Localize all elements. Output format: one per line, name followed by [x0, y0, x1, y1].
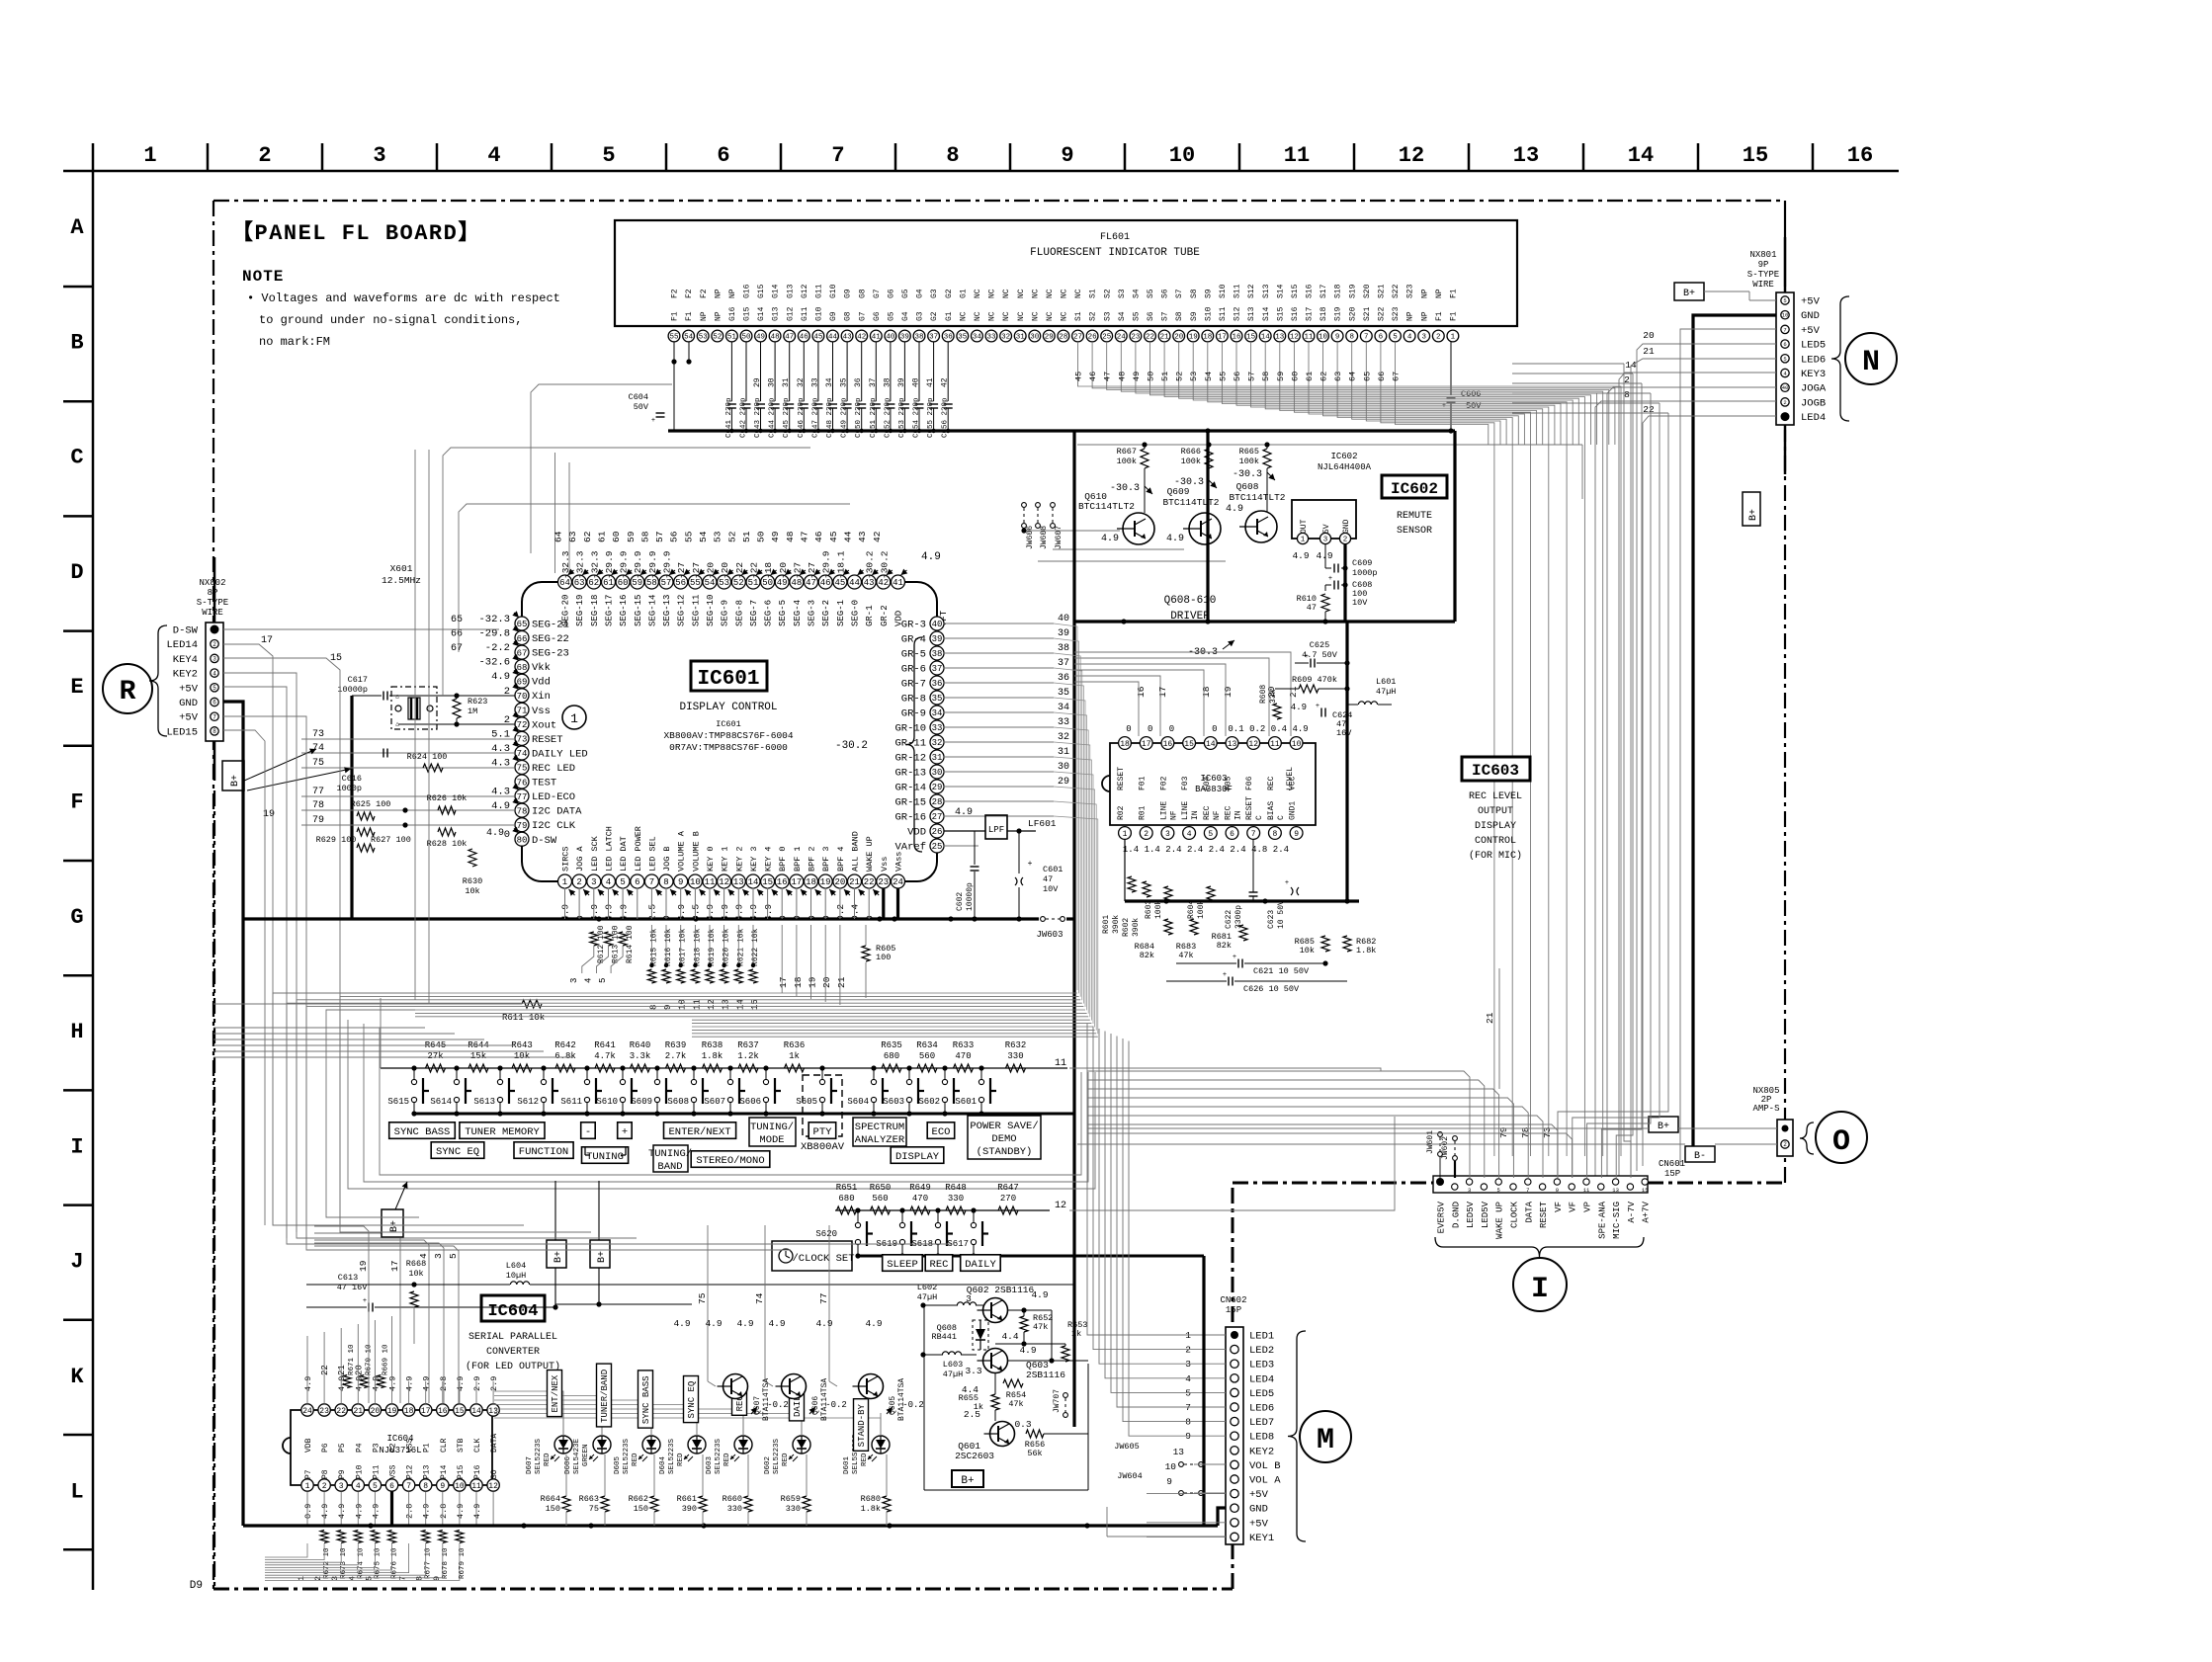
svg-text:NP: NP	[700, 311, 709, 321]
svg-text:S608: S608	[667, 1097, 689, 1107]
FL601 right pin bus (nets 45-67)	[1078, 342, 1622, 1156]
FL601 pin 33	[985, 330, 997, 342]
svg-text:GR-13: GR-13	[894, 768, 926, 780]
svg-text:43: 43	[857, 531, 868, 542]
op-chip IC601 outline	[522, 582, 937, 881]
svg-text:17: 17	[791, 877, 802, 887]
svg-text:2.4: 2.4	[1165, 845, 1181, 855]
svg-text:LED6: LED6	[1801, 354, 1826, 366]
svg-text:7: 7	[1251, 830, 1256, 839]
svg-text:P7: P7	[304, 1469, 313, 1479]
svg-text:30: 30	[768, 377, 777, 387]
B+ box rotated right side	[1743, 492, 1760, 526]
svg-text:50V: 50V	[1466, 401, 1482, 411]
M connector pin 15	[1231, 1533, 1238, 1540]
svg-text:KEY 1: KEY 1	[721, 846, 730, 872]
svg-text:SEG-8: SEG-8	[734, 600, 744, 626]
svg-text:27: 27	[932, 812, 943, 822]
LED D604	[688, 1436, 706, 1454]
IC601 left pin 78	[515, 803, 529, 817]
svg-text:SEL5423E: SEL5423E	[573, 1438, 581, 1474]
IC601 left pin 67	[515, 645, 529, 659]
IC604 bottom pin 1	[301, 1479, 313, 1491]
svg-text:58: 58	[639, 531, 650, 542]
svg-text:JW602: JW602	[1441, 1136, 1450, 1160]
M connector pin 5	[1231, 1388, 1238, 1396]
svg-text:GR-2: GR-2	[880, 605, 890, 626]
svg-text:58: 58	[1261, 372, 1271, 381]
svg-text:5: 5	[620, 877, 625, 887]
svg-text:2: 2	[322, 1482, 327, 1491]
IC601 bottom pin 5	[616, 874, 630, 888]
svg-text:C621 10 50V: C621 10 50V	[1253, 966, 1310, 976]
svg-text:75: 75	[517, 764, 528, 774]
svg-text:47: 47	[1103, 372, 1113, 381]
svg-text:S3: S3	[1103, 311, 1112, 321]
svg-text:22: 22	[1146, 334, 1154, 342]
svg-text:SEG-16: SEG-16	[619, 595, 629, 626]
svg-text:4.4: 4.4	[962, 1384, 978, 1395]
IC601 bottom pin 24	[892, 874, 905, 888]
svg-text:+5V: +5V	[179, 712, 199, 724]
svg-text:4.9: 4.9	[1101, 534, 1119, 544]
svg-text:SEG-14: SEG-14	[647, 595, 657, 626]
svg-text:5: 5	[213, 685, 216, 692]
svg-text:0.4: 0.4	[1271, 724, 1287, 734]
svg-text:GR-10: GR-10	[894, 723, 926, 735]
svg-text:B+: B+	[961, 1475, 974, 1487]
svg-text:S603: S603	[883, 1097, 904, 1107]
IC603 bottom pin 4	[1183, 827, 1196, 840]
svg-text:4.9: 4.9	[815, 1318, 832, 1329]
svg-text:WIRE: WIRE	[202, 608, 223, 618]
svg-text:S7: S7	[1175, 289, 1184, 298]
IC604 bottom pin 11	[470, 1479, 482, 1491]
svg-text:43: 43	[843, 334, 853, 342]
svg-text:L602: L602	[917, 1283, 937, 1292]
svg-text:75: 75	[589, 1504, 599, 1514]
R connector pin 4	[211, 669, 218, 677]
svg-text:G16: G16	[728, 306, 737, 321]
svg-text:RED: RED	[632, 1453, 639, 1466]
svg-text:S615: S615	[387, 1097, 409, 1107]
svg-text:2.5: 2.5	[964, 1409, 980, 1420]
svg-text:SEG-23: SEG-23	[532, 648, 569, 660]
svg-text:1k: 1k	[789, 1051, 800, 1061]
svg-text:2.8: 2.8	[405, 1504, 415, 1519]
svg-text:CONTROL: CONTROL	[1475, 836, 1516, 847]
svg-text:3: 3	[213, 656, 216, 663]
IC601 left pin 70	[515, 689, 529, 703]
svg-text:1: 1	[305, 1482, 310, 1491]
svg-text:S610: S610	[596, 1097, 618, 1107]
svg-text:LED2: LED2	[1249, 1345, 1274, 1357]
svg-text:2.8: 2.8	[439, 1504, 449, 1519]
svg-text:7: 7	[1783, 326, 1786, 333]
svg-text:8P: 8P	[208, 588, 218, 598]
IC601 bottom pin 11	[703, 874, 717, 888]
clock set box	[772, 1241, 852, 1271]
svg-text:36: 36	[854, 377, 863, 387]
FL601 pin 48	[769, 330, 781, 342]
svg-text:8: 8	[1272, 830, 1277, 839]
svg-text:10: 10	[1782, 312, 1789, 319]
svg-text:15: 15	[1642, 1187, 1649, 1194]
IC601 right pin 40	[930, 617, 944, 630]
svg-text:16: 16	[438, 1407, 448, 1416]
svg-text:2.7k: 2.7k	[665, 1051, 687, 1061]
svg-text:50: 50	[1147, 372, 1156, 381]
svg-text:R609 470k: R609 470k	[1292, 675, 1337, 685]
svg-text:2.4: 2.4	[1187, 845, 1203, 855]
svg-text:REC LED: REC LED	[532, 763, 575, 775]
IC601 top pin 53	[718, 575, 731, 589]
svg-text:R651: R651	[836, 1183, 858, 1193]
IC601 bottom pin 13	[731, 874, 745, 888]
IC604 bottom pin 5	[369, 1479, 381, 1491]
svg-text:KEY4: KEY4	[173, 654, 198, 666]
svg-text:JW604: JW604	[1117, 1471, 1143, 1481]
svg-text:-30.2: -30.2	[865, 550, 876, 579]
svg-text:19: 19	[820, 877, 831, 887]
svg-text:R620 10k: R620 10k	[723, 928, 731, 966]
svg-text:26: 26	[1088, 334, 1098, 342]
horizontal connections at top right	[1512, 363, 1624, 365]
svg-text:2: 2	[1783, 1141, 1787, 1148]
svg-text:1.8k: 1.8k	[702, 1051, 723, 1061]
svg-text:JW607: JW607	[1055, 526, 1063, 549]
svg-text:BPF 2: BPF 2	[808, 846, 817, 872]
svg-text:-: -	[585, 1126, 591, 1138]
svg-text:-27: -27	[676, 562, 687, 579]
switch S604	[873, 1068, 875, 1079]
svg-text:10: 10	[1169, 143, 1195, 168]
svg-text:R638: R638	[702, 1040, 723, 1050]
IC601 right pin 33	[930, 720, 944, 734]
svg-text:16: 16	[1163, 740, 1173, 749]
svg-text:AMP-S: AMP-S	[1752, 1104, 1779, 1114]
svg-text:14: 14	[748, 877, 759, 887]
M connector pin 1	[1231, 1331, 1238, 1339]
svg-text:+: +	[1305, 653, 1309, 661]
IC604 bottom pin 3	[335, 1479, 347, 1491]
IC604 top pin 22	[335, 1404, 347, 1416]
svg-text:NC: NC	[959, 311, 968, 321]
svg-text:POWER SAVE/: POWER SAVE/	[970, 1121, 1038, 1132]
svg-text:R648: R648	[945, 1183, 967, 1193]
svg-text:36: 36	[1058, 673, 1069, 684]
svg-text:-2.2: -2.2	[485, 642, 510, 654]
svg-text:STAND-BY: STAND-BY	[857, 1403, 867, 1447]
svg-text:FUNCTION: FUNCTION	[519, 1146, 568, 1158]
FL601 pin 30	[1029, 330, 1041, 342]
svg-text:13: 13	[1173, 1447, 1185, 1457]
svg-text:LED DAT: LED DAT	[619, 836, 629, 872]
svg-text:44: 44	[828, 334, 838, 342]
svg-text:P5: P5	[338, 1443, 347, 1453]
svg-text:+5V: +5V	[179, 683, 199, 695]
svg-text:76: 76	[517, 778, 528, 788]
svg-text:SEG-5: SEG-5	[778, 600, 788, 626]
svg-text:13: 13	[1513, 143, 1539, 168]
svg-text:18: 18	[806, 877, 816, 887]
svg-text:SPE-ANA: SPE-ANA	[1597, 1201, 1607, 1238]
svg-text:ECO: ECO	[932, 1126, 951, 1138]
switch S619	[901, 1210, 903, 1222]
svg-text:2: 2	[258, 143, 271, 168]
FL601 pin 55	[668, 330, 680, 342]
svg-text:DISPLAY: DISPLAY	[1475, 821, 1516, 832]
R655	[991, 1394, 999, 1410]
IC601 bottom pin 4	[602, 874, 616, 888]
N connector pin 7	[1781, 383, 1789, 391]
FL601 pin 25	[1101, 330, 1113, 342]
IC601 bottom pin 15	[761, 874, 775, 888]
svg-text:CONVERTER: CONVERTER	[486, 1347, 540, 1358]
I connector pin 4	[1481, 1184, 1487, 1190]
switch S618	[937, 1210, 939, 1222]
svg-text:30: 30	[1030, 334, 1040, 342]
FL601 pin 53	[697, 330, 709, 342]
svg-text:GND: GND	[1801, 310, 1820, 322]
svg-text:10: 10	[1165, 1461, 1177, 1472]
svg-text:-29.9: -29.9	[633, 550, 643, 579]
svg-text:G2: G2	[930, 311, 939, 321]
svg-text:TUNER/BAND: TUNER/BAND	[600, 1370, 610, 1423]
svg-text:6: 6	[213, 700, 216, 706]
svg-text:S21: S21	[1378, 284, 1387, 298]
svg-text:470: 470	[955, 1051, 971, 1061]
svg-text:DEMO: DEMO	[991, 1133, 1016, 1145]
svg-text:MIC-SIG: MIC-SIG	[1612, 1202, 1622, 1239]
svg-text:P16: P16	[473, 1464, 482, 1479]
svg-text:SENSOR: SENSOR	[1397, 526, 1432, 537]
svg-text:57: 57	[1247, 372, 1257, 381]
svg-text:18: 18	[404, 1407, 414, 1416]
IC601 top pin 42	[877, 575, 891, 589]
svg-text:9: 9	[1185, 1431, 1191, 1442]
svg-text:33: 33	[810, 377, 819, 387]
svg-text:S614: S614	[430, 1097, 452, 1107]
svg-text:RED: RED	[723, 1453, 731, 1466]
svg-text:F2: F2	[685, 289, 694, 298]
svg-text:C616: C616	[342, 774, 362, 784]
IC601 top pin 62	[587, 575, 601, 589]
IC603 top pin 18	[1119, 737, 1132, 750]
svg-text:5: 5	[373, 1482, 378, 1491]
IC601 left pin 71	[515, 703, 529, 716]
svg-text:R659: R659	[781, 1494, 801, 1504]
svg-text:5V: 5V	[1322, 524, 1331, 534]
svg-text:9: 9	[1335, 334, 1340, 342]
svg-text:-27: -27	[792, 562, 803, 579]
LED D605	[642, 1436, 660, 1454]
thick key bus row1	[414, 1113, 1074, 1116]
R connector pin 3	[211, 654, 218, 662]
svg-text:RESET: RESET	[1245, 796, 1254, 820]
FL601 pin 34	[972, 330, 983, 342]
svg-text:14: 14	[471, 1407, 481, 1416]
svg-text:3: 3	[1165, 830, 1170, 839]
svg-text:S17: S17	[1319, 284, 1328, 298]
N connector pin 4	[1781, 340, 1789, 348]
svg-text:SEL5223S: SEL5223S	[535, 1438, 543, 1474]
svg-text:G1: G1	[945, 311, 954, 321]
svg-text:S19: S19	[1334, 306, 1343, 321]
switch S610	[622, 1068, 624, 1079]
svg-text:13: 13	[722, 999, 731, 1010]
svg-text:JW603: JW603	[1036, 930, 1063, 940]
N circle	[1845, 333, 1897, 384]
svg-text:BPF 3: BPF 3	[821, 846, 831, 872]
svg-text:6.8k: 6.8k	[554, 1051, 576, 1061]
svg-text:21: 21	[1643, 346, 1655, 357]
svg-text:G9: G9	[844, 289, 853, 298]
IC603 top pin 13	[1226, 737, 1238, 750]
svg-text:R641: R641	[594, 1040, 616, 1050]
IC604 bottom pin 2	[318, 1479, 330, 1491]
svg-text:10000p: 10000p	[337, 685, 368, 695]
svg-text:GR-14: GR-14	[894, 783, 926, 794]
svg-text:G1: G1	[959, 289, 968, 298]
svg-text:56: 56	[669, 531, 680, 542]
svg-text:11: 11	[1270, 740, 1280, 749]
svg-text:S10: S10	[1219, 284, 1228, 298]
svg-text:S16: S16	[1306, 284, 1315, 298]
IC601 bottom pin 1	[558, 874, 572, 888]
svg-text:C601: C601	[1043, 865, 1063, 874]
svg-text:S605: S605	[796, 1097, 817, 1107]
FL601 pin 27	[1072, 330, 1084, 342]
svg-text:+: +	[1316, 703, 1319, 710]
svg-text:G11: G11	[815, 284, 824, 298]
FL601 pin 41	[870, 330, 882, 342]
svg-text:R666: R666	[1181, 447, 1201, 457]
svg-text:41: 41	[926, 377, 935, 387]
svg-text:Q608: Q608	[1236, 481, 1259, 492]
svg-text:16: 16	[1136, 686, 1147, 698]
svg-text:39: 39	[1058, 628, 1069, 639]
svg-text:G5: G5	[901, 289, 910, 298]
svg-text:37: 37	[1058, 658, 1069, 669]
svg-text:37: 37	[932, 664, 943, 674]
svg-text:6: 6	[635, 877, 639, 887]
FL601 pin 32	[1000, 330, 1012, 342]
svg-text:C: C	[1255, 815, 1264, 820]
svg-text:NC: NC	[974, 311, 982, 321]
IC603 bottom pin 7	[1247, 827, 1260, 840]
svg-text:24: 24	[893, 877, 903, 887]
I connector pin 11	[1583, 1179, 1589, 1185]
svg-text:4.9: 4.9	[921, 551, 941, 563]
svg-text:36: 36	[944, 334, 954, 342]
svg-text:IN: IN	[1191, 810, 1200, 820]
svg-text:4.9: 4.9	[768, 1318, 785, 1329]
svg-text:FLUORESCENT INDICATOR TUBE: FLUORESCENT INDICATOR TUBE	[1030, 247, 1200, 259]
O circle	[1800, 1122, 1814, 1154]
svg-text:50: 50	[756, 531, 767, 542]
svg-text:D-SW: D-SW	[173, 625, 199, 637]
driver transistors Q607 Q606 Q605	[723, 1374, 748, 1399]
svg-text:L: L	[70, 1479, 83, 1504]
svg-text:74: 74	[312, 743, 324, 754]
svg-text:53: 53	[713, 531, 723, 542]
svg-text:VDD: VDD	[907, 827, 926, 839]
LED D602	[793, 1436, 810, 1454]
svg-text:19: 19	[1223, 686, 1234, 698]
svg-text:S13: S13	[1247, 306, 1256, 321]
svg-text:SEG-11: SEG-11	[691, 595, 701, 626]
svg-text:29: 29	[753, 377, 762, 387]
svg-text:47: 47	[1307, 603, 1317, 613]
B+ box near N	[1674, 283, 1704, 300]
svg-text:C609: C609	[1352, 558, 1372, 568]
svg-text:S15: S15	[1276, 306, 1285, 321]
svg-text:F2: F2	[700, 289, 709, 298]
svg-text:-29.9: -29.9	[619, 550, 630, 579]
IC603 top pin 10	[1290, 737, 1303, 750]
svg-text:11: 11	[1304, 334, 1314, 342]
IC603 top pin 11	[1269, 737, 1282, 750]
FL601 pin 29	[1043, 330, 1055, 342]
svg-text:D601: D601	[843, 1455, 851, 1474]
svg-text:3: 3	[1185, 1359, 1191, 1370]
svg-text:R626 10k: R626 10k	[427, 793, 468, 803]
svg-text:P1: P1	[423, 1443, 432, 1453]
svg-text:+: +	[1223, 971, 1227, 979]
svg-text:51: 51	[1160, 372, 1170, 381]
I connector pin 10	[1569, 1184, 1574, 1190]
svg-text:R616 10k: R616 10k	[664, 928, 673, 966]
N connector pin 6	[1781, 369, 1789, 376]
svg-text:R632: R632	[1005, 1040, 1027, 1050]
svg-text:JOG A: JOG A	[575, 846, 585, 872]
svg-text:2.9: 2.9	[472, 1376, 482, 1391]
mid horizontal long wires	[213, 1027, 425, 1029]
svg-text:R635: R635	[881, 1040, 902, 1050]
svg-text:GREEN: GREEN	[582, 1444, 590, 1466]
IC601 bottom pin 16	[775, 874, 789, 888]
svg-text:G14: G14	[757, 306, 766, 321]
svg-text:7: 7	[213, 713, 216, 720]
note reference circle 1	[562, 706, 586, 729]
svg-text:S602: S602	[918, 1097, 940, 1107]
svg-text:2: 2	[1343, 537, 1348, 544]
IC603 bottom pin 9	[1290, 827, 1303, 840]
IC601 top pin 44	[848, 575, 862, 589]
IC604 top stubs	[306, 1336, 308, 1404]
svg-text:4.9: 4.9	[865, 1318, 882, 1329]
IC601 right pin 36	[930, 676, 944, 690]
svg-text:PTY: PTY	[813, 1126, 833, 1138]
FL601 pin 40	[885, 330, 896, 342]
svg-text:GR-15: GR-15	[894, 797, 926, 809]
B+ box left	[382, 1209, 403, 1237]
svg-text:(FOR MIC): (FOR MIC)	[1469, 850, 1522, 862]
svg-text:1: 1	[143, 143, 156, 168]
svg-text:STB: STB	[457, 1438, 466, 1453]
svg-text:LEVEL: LEVEL	[1286, 767, 1295, 790]
svg-text:4.9: 4.9	[1292, 550, 1309, 561]
svg-text:LED14: LED14	[166, 639, 198, 651]
wire bundle right of IC601	[1054, 623, 1077, 990]
svg-text:4: 4	[606, 877, 611, 887]
svg-text:GR-1: GR-1	[865, 605, 875, 626]
bottom pin stubs of IC601	[564, 888, 566, 920]
svg-text:42: 42	[872, 531, 883, 542]
svg-text:2.9: 2.9	[489, 1376, 499, 1391]
svg-text:S10: S10	[1204, 306, 1213, 321]
